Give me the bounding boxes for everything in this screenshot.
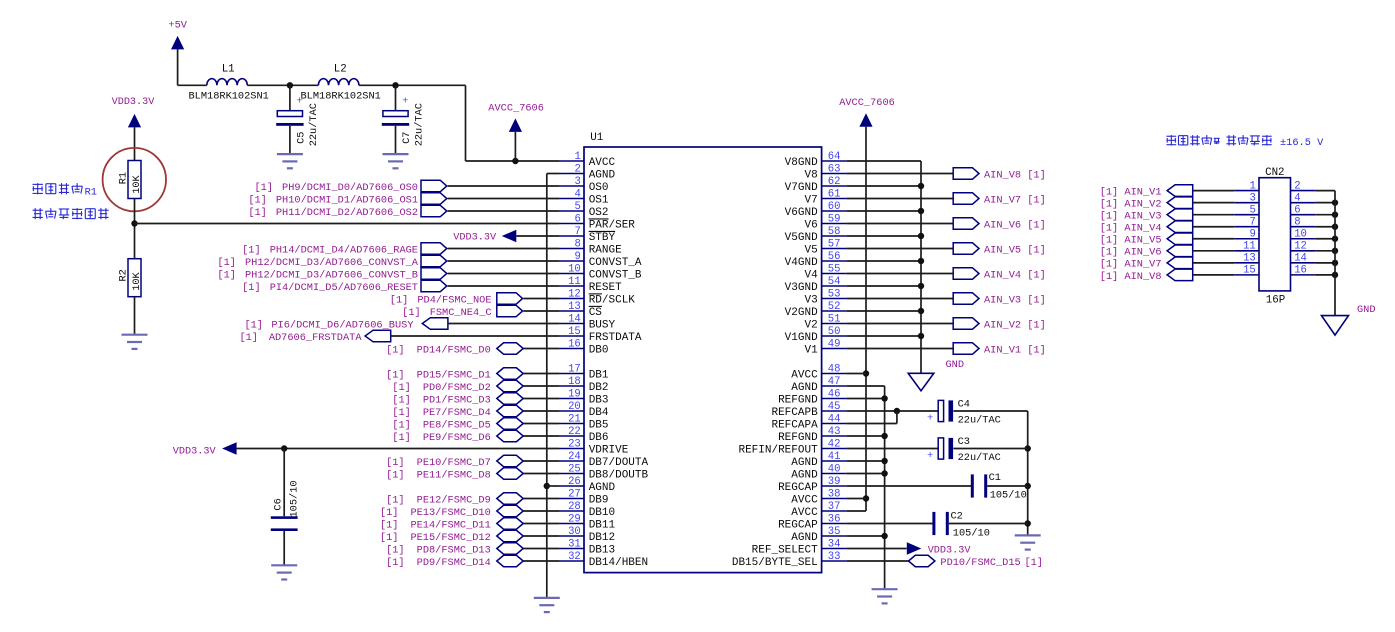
svg-text:PH11/DCMI_D2/AD7606_OS2: PH11/DCMI_D2/AD7606_OS2	[276, 207, 418, 219]
svg-text:±16.5 V: ±16.5 V	[1280, 137, 1324, 149]
svg-text:[1]: [1]	[217, 257, 236, 269]
wire	[546, 174, 548, 598]
svg-text:R1: R1	[85, 187, 97, 199]
svg-text:DB14/HBEN: DB14/HBEN	[589, 557, 648, 569]
wire	[448, 323, 559, 325]
svg-text:34: 34	[828, 538, 841, 550]
pin 64 V8GND	[785, 151, 847, 169]
ground	[383, 154, 409, 168]
svg-text:C3: C3	[958, 436, 970, 448]
wire	[1315, 214, 1335, 216]
port PE15/FSMC_D12	[380, 530, 523, 544]
svg-text:PH12/DCMI_D3/AD7606_CONVST_B: PH12/DCMI_D3/AD7606_CONVST_B	[245, 269, 418, 281]
pin 55 V4	[804, 263, 846, 281]
svg-text:[1]: [1]	[380, 519, 399, 531]
svg-text:105/10: 105/10	[953, 527, 990, 539]
net AIN_V8	[847, 168, 1046, 182]
pin 2 AGND	[559, 163, 616, 181]
svg-text:[1]: [1]	[380, 507, 399, 519]
wire	[847, 260, 921, 262]
svg-text:PE14/FSMC_D11: PE14/FSMC_D11	[410, 519, 490, 531]
svg-text:VDD3.3V: VDD3.3V	[112, 97, 156, 108]
svg-text:26: 26	[568, 476, 581, 488]
pin 10 CONVST_B	[559, 263, 642, 281]
ground GND	[1322, 304, 1376, 335]
svg-text:43: 43	[828, 426, 841, 438]
svg-text:C4: C4	[958, 398, 970, 410]
power flag VDD3.3V (STBY)	[453, 230, 516, 244]
port PE9/FSMC_D6	[392, 430, 523, 444]
wire	[953, 410, 1027, 412]
svg-text:[1]: [1]	[239, 332, 258, 344]
wire	[1315, 250, 1335, 252]
svg-text:DB15/BYTE_SEL: DB15/BYTE_SEL	[732, 557, 818, 569]
svg-text:13: 13	[568, 301, 581, 313]
svg-text:AIN_V5 [1]: AIN_V5 [1]	[984, 244, 1046, 256]
wire	[523, 373, 559, 375]
inductor L1	[189, 64, 269, 103]
svg-text:R2: R2	[117, 269, 129, 281]
svg-text:4: 4	[1294, 192, 1300, 204]
junction	[881, 533, 887, 539]
svg-text:[1]: [1]	[386, 344, 405, 356]
svg-text:V8: V8	[804, 169, 817, 181]
svg-text:FRSTDATA: FRSTDATA	[589, 332, 642, 344]
svg-text:17: 17	[568, 363, 581, 375]
pin 11 RESET	[559, 276, 622, 294]
svg-text:[1]: [1]	[386, 544, 405, 556]
capacitor C5	[276, 85, 320, 154]
pin 11	[1234, 241, 1259, 253]
pin 28 DB10	[559, 501, 615, 519]
svg-text:CS: CS	[589, 307, 603, 319]
pin 32 DB14/HBEN	[559, 551, 648, 569]
svg-text:14: 14	[568, 313, 581, 325]
svg-text:36: 36	[828, 513, 841, 525]
svg-text:DB11: DB11	[589, 519, 616, 531]
wire	[523, 385, 559, 387]
wire	[247, 84, 318, 86]
svg-text:AGND: AGND	[791, 382, 818, 394]
wire	[1315, 190, 1335, 192]
wire agnd rail	[884, 386, 886, 589]
pin 13	[1234, 253, 1259, 265]
port PD14/FSMC_D0	[386, 343, 523, 357]
svg-text:+: +	[297, 96, 303, 108]
wire	[448, 198, 559, 200]
svg-text:STBY: STBY	[589, 232, 616, 244]
pin 25 DB8/DOUTB	[559, 463, 649, 481]
svg-text:AIN_V4 [1]: AIN_V4 [1]	[984, 269, 1046, 281]
svg-text:DB3: DB3	[589, 394, 609, 406]
ground GND	[908, 359, 964, 391]
svg-text:V5GND: V5GND	[785, 232, 818, 244]
svg-text:PE15/FSMC_D12: PE15/FSMC_D12	[410, 532, 490, 544]
svg-text:PH9/DCMI_D0/AD7606_OS0: PH9/DCMI_D0/AD7606_OS0	[282, 182, 418, 194]
svg-text:RANGE: RANGE	[589, 244, 622, 256]
svg-text:CONVST_A: CONVST_A	[589, 257, 642, 269]
pin 23 VDRIVE	[559, 438, 629, 456]
port PE10/FSMC_D7	[386, 455, 523, 469]
pin 41 AGND	[791, 451, 846, 469]
net AIN_V1	[847, 343, 1046, 357]
pin 48 AVCC	[791, 363, 846, 381]
svg-text:AIN_V6 [1]: AIN_V6 [1]	[984, 219, 1046, 231]
port PD10/FSMC_D15	[909, 555, 1044, 569]
junction	[287, 82, 293, 88]
pin 49 V1	[804, 338, 846, 356]
svg-text:35: 35	[828, 526, 841, 538]
pin 62 V7GND	[785, 176, 847, 194]
pin 63 V8	[804, 163, 846, 181]
wire	[847, 560, 909, 562]
pin 17 DB1	[559, 363, 609, 381]
wire	[1315, 262, 1335, 264]
pin 13 CS	[559, 301, 602, 319]
svg-text:10K: 10K	[131, 174, 143, 193]
svg-text:VDD3.3V: VDD3.3V	[173, 446, 217, 457]
pin 50 V1GND	[785, 326, 847, 344]
wire	[547, 173, 559, 175]
pin 6	[1291, 204, 1316, 216]
net AIN_V7	[1100, 257, 1193, 271]
pin 33 DB15/BYTE_SEL	[732, 551, 847, 569]
port AD7606_FRSTDATA	[239, 330, 390, 344]
port PD15/FSMC_D1	[386, 368, 523, 382]
svg-text:7: 7	[574, 226, 580, 238]
svg-text:4: 4	[574, 188, 580, 200]
wire	[523, 560, 559, 562]
capacitor C3	[927, 436, 1001, 464]
junction	[512, 158, 518, 164]
svg-text:53: 53	[828, 288, 841, 300]
pin 36 REGCAP	[778, 513, 847, 531]
junction	[1332, 224, 1338, 230]
net AIN_V5	[847, 243, 1046, 257]
svg-text:PH12/DCMI_D3/AD7606_CONVST_A: PH12/DCMI_D3/AD7606_CONVST_A	[245, 257, 419, 269]
pin 60 V6GND	[785, 201, 847, 219]
svg-text:52: 52	[828, 301, 841, 313]
wire	[847, 335, 921, 337]
svg-text:56: 56	[828, 251, 841, 263]
power flag AVCC_7606 (left)	[488, 103, 544, 162]
net AIN_V6	[847, 218, 1046, 232]
wire	[847, 385, 885, 387]
svg-text:29: 29	[568, 513, 581, 525]
svg-text:16: 16	[1294, 265, 1307, 277]
svg-text:PD8/FSMC_D13: PD8/FSMC_D13	[417, 544, 491, 556]
wire	[523, 423, 559, 425]
resistor R2	[117, 259, 143, 297]
pin 7 STBY	[559, 226, 616, 244]
svg-text:25: 25	[568, 463, 581, 475]
svg-text:AGND: AGND	[791, 457, 818, 469]
wire	[1193, 190, 1235, 192]
svg-text:V1GND: V1GND	[785, 332, 818, 344]
svg-text:AVCC_7606: AVCC_7606	[488, 103, 544, 115]
svg-text:42: 42	[828, 438, 841, 450]
wire	[448, 285, 559, 287]
svg-text:V3: V3	[804, 294, 817, 306]
svg-text:V8GND: V8GND	[785, 157, 818, 169]
port PH14/DCMI_D4/AD7606_RAGE	[242, 243, 447, 257]
junction	[1332, 199, 1338, 205]
svg-text:8: 8	[1294, 217, 1300, 229]
pin 1	[1234, 180, 1259, 192]
wire	[847, 160, 921, 162]
svg-text:9: 9	[1249, 229, 1255, 241]
svg-text:[1]: [1]	[392, 432, 411, 444]
svg-text:V2GND: V2GND	[785, 307, 818, 319]
svg-text:PH10/DCMI_D1/AD7606_OS1: PH10/DCMI_D1/AD7606_OS1	[276, 194, 418, 206]
svg-text:[1]: [1]	[386, 469, 405, 481]
annotation: input clamp, max +-16.5 V	[1166, 135, 1324, 149]
svg-text:6: 6	[574, 213, 580, 225]
pin 42 REFIN/REFOUT	[738, 438, 846, 456]
svg-text:22u/TAC: 22u/TAC	[958, 452, 1001, 464]
svg-text:OS0: OS0	[589, 182, 609, 194]
net AIN_V8	[1100, 269, 1193, 283]
capacitor C4	[927, 398, 1001, 426]
svg-text:44: 44	[828, 413, 841, 425]
wire	[847, 410, 939, 412]
svg-text:RD/SCLK: RD/SCLK	[589, 294, 636, 306]
svg-text:22u/TAC: 22u/TAC	[413, 103, 425, 146]
junction	[1332, 211, 1338, 217]
svg-text:11: 11	[568, 276, 581, 288]
svg-text:AIN_V8 [1]: AIN_V8 [1]	[984, 169, 1046, 181]
ground	[277, 154, 303, 168]
capacitor C7	[382, 85, 426, 154]
svg-text:1: 1	[1249, 180, 1255, 192]
svg-text:33: 33	[828, 551, 841, 563]
wire	[516, 235, 559, 237]
pin 54 V3GND	[785, 276, 847, 294]
svg-text:[1]: [1]	[392, 394, 411, 406]
svg-text:30: 30	[568, 526, 581, 538]
svg-text:DB5: DB5	[589, 419, 609, 431]
wire	[523, 348, 559, 350]
svg-text:12: 12	[568, 288, 581, 300]
wire	[448, 185, 559, 187]
wire	[178, 84, 207, 86]
wire	[523, 410, 559, 412]
pin 44 REFCAPA	[771, 413, 846, 431]
port PD1/FSMC_D3	[392, 393, 523, 407]
wire	[847, 473, 885, 475]
net AIN_V2	[1100, 197, 1193, 211]
ground	[122, 335, 148, 349]
wire	[523, 510, 559, 512]
pin 51 V2	[804, 313, 846, 331]
svg-text:REFCAPA: REFCAPA	[771, 419, 818, 431]
junction	[894, 408, 900, 414]
svg-text:V2: V2	[804, 319, 817, 331]
wire	[847, 435, 885, 437]
svg-text:V7: V7	[804, 194, 817, 206]
svg-text:10: 10	[568, 263, 581, 275]
svg-text:DB8/DOUTB: DB8/DOUTB	[589, 469, 649, 481]
svg-text:[1]: [1]	[392, 407, 411, 419]
svg-text:V4: V4	[804, 269, 818, 281]
wire	[987, 485, 1027, 487]
svg-text:DB6: DB6	[589, 432, 609, 444]
pin 9	[1234, 229, 1259, 241]
pin 3	[1234, 192, 1259, 204]
svg-text:PD15/FSMC_D1: PD15/FSMC_D1	[417, 369, 491, 381]
svg-text:U1: U1	[590, 132, 603, 144]
pin 18 DB2	[559, 376, 609, 394]
wire	[523, 310, 559, 312]
pin 31 DB13	[559, 538, 615, 556]
net AIN_V4	[847, 268, 1046, 282]
svg-text:+: +	[402, 96, 408, 108]
pin 4 OS1	[559, 188, 609, 206]
svg-text:[1]: [1]	[390, 294, 409, 306]
svg-text:5: 5	[574, 201, 580, 213]
svg-text:5: 5	[1249, 204, 1255, 216]
pin 57 V5	[804, 238, 846, 256]
wire	[448, 248, 559, 250]
pin 12 RD/SCLK	[559, 288, 635, 306]
pin 52 V2GND	[785, 301, 847, 319]
svg-text:OS2: OS2	[589, 207, 609, 219]
capacitor C6	[271, 449, 301, 566]
junction	[1025, 520, 1031, 526]
pin 21 DB5	[559, 413, 609, 431]
svg-text:9: 9	[574, 251, 580, 263]
annotation: default do-not-fit R1, selects parallel mode	[32, 183, 108, 219]
svg-text:DB2: DB2	[589, 382, 609, 394]
pin 16	[1291, 265, 1316, 277]
svg-text:PE7/FSMC_D4: PE7/FSMC_D4	[423, 407, 491, 419]
port PD0/FSMC_D2	[392, 380, 523, 394]
ground	[1015, 535, 1041, 549]
junction	[863, 370, 869, 376]
svg-text:11: 11	[1243, 241, 1256, 253]
wire	[847, 373, 866, 375]
svg-text:AGND: AGND	[791, 469, 818, 481]
wire	[847, 210, 921, 212]
wire	[135, 223, 560, 225]
port PH11/DCMI_D2/AD7606_OS2	[248, 205, 446, 219]
svg-text:C2: C2	[951, 510, 963, 522]
junction	[918, 208, 924, 214]
junction	[1025, 445, 1031, 451]
pin 61 V7	[804, 188, 846, 206]
svg-text:105/10: 105/10	[288, 480, 300, 517]
svg-text:22u/TAC: 22u/TAC	[308, 103, 320, 146]
wire	[953, 448, 1027, 450]
junction	[918, 283, 924, 289]
svg-text:20: 20	[568, 401, 581, 413]
svg-text:19: 19	[568, 388, 581, 400]
pin 35 AGND	[791, 526, 846, 544]
wire	[847, 523, 933, 525]
power flag VDD3.3V (top left)	[112, 97, 156, 127]
port PE8/FSMC_D5	[392, 418, 523, 432]
port PE14/FSMC_D11	[380, 518, 523, 532]
svg-text:13: 13	[1243, 253, 1256, 265]
junction	[881, 433, 887, 439]
wire	[448, 210, 559, 212]
pin 6 PAR/SER	[559, 213, 635, 231]
svg-text:37: 37	[828, 501, 841, 513]
svg-text:6: 6	[1294, 204, 1300, 216]
port PE11/FSMC_D8	[386, 468, 523, 482]
power flag +5V	[168, 20, 187, 50]
wire	[896, 411, 898, 424]
svg-text:15: 15	[568, 326, 581, 338]
svg-text:45: 45	[828, 401, 841, 413]
svg-text:[1]: [1]	[386, 457, 405, 469]
ground	[872, 589, 898, 603]
svg-text:PAR/SER: PAR/SER	[589, 219, 636, 231]
pin 5	[1234, 204, 1259, 216]
junction	[881, 395, 887, 401]
wire	[847, 535, 885, 537]
pin 8	[1291, 217, 1316, 229]
svg-text:62: 62	[828, 176, 841, 188]
svg-text:[1] AIN_V4: [1] AIN_V4	[1100, 223, 1162, 235]
pin 53 V3	[804, 288, 846, 306]
svg-text:PE9/FSMC_D6: PE9/FSMC_D6	[423, 432, 491, 444]
wire	[523, 435, 559, 437]
wire	[134, 199, 136, 259]
wire	[1193, 214, 1235, 216]
svg-text:58: 58	[828, 226, 841, 238]
svg-text:C1: C1	[989, 472, 1001, 484]
wire	[523, 535, 559, 537]
svg-text:PH14/DCMI_D4/AD7606_RAGE: PH14/DCMI_D4/AD7606_RAGE	[270, 244, 418, 256]
wire	[1315, 226, 1335, 228]
svg-text:DB10: DB10	[589, 507, 615, 519]
wire	[1193, 274, 1235, 276]
svg-text:15: 15	[1243, 265, 1256, 277]
pin 1 AVCC	[559, 151, 616, 169]
svg-text:PD0/FSMC_D2: PD0/FSMC_D2	[423, 382, 491, 394]
junction	[918, 183, 924, 189]
pin 24 DB7/DOUTA	[559, 451, 649, 469]
svg-text:AIN_V7 [1]: AIN_V7 [1]	[984, 194, 1046, 206]
svg-text:1: 1	[574, 151, 580, 163]
wire	[1315, 274, 1335, 276]
svg-text:DB9: DB9	[589, 494, 609, 506]
svg-text:51: 51	[828, 313, 841, 325]
svg-text:GND: GND	[1357, 304, 1376, 316]
svg-text:2: 2	[574, 163, 580, 175]
pin 14 BUSY	[559, 313, 616, 331]
svg-text:10: 10	[1294, 229, 1307, 241]
svg-text:DB13: DB13	[589, 544, 615, 556]
svg-text:GND: GND	[946, 359, 965, 371]
wire	[847, 448, 939, 450]
wire	[949, 523, 1028, 525]
pin 2	[1291, 180, 1316, 192]
svg-text:55: 55	[828, 263, 841, 275]
svg-text:16: 16	[568, 338, 581, 350]
svg-text:REFCAPB: REFCAPB	[771, 407, 818, 419]
svg-text:[1]: [1]	[1024, 557, 1043, 569]
pin 47 AGND	[791, 376, 846, 394]
wire cap rail	[1027, 411, 1029, 535]
svg-text:[1]: [1]	[386, 369, 405, 381]
junction	[918, 233, 924, 239]
svg-text:BUSY: BUSY	[589, 319, 616, 331]
svg-text:DB0: DB0	[589, 344, 609, 356]
wire	[391, 335, 559, 337]
svg-text:[1] AIN_V5: [1] AIN_V5	[1100, 235, 1162, 247]
